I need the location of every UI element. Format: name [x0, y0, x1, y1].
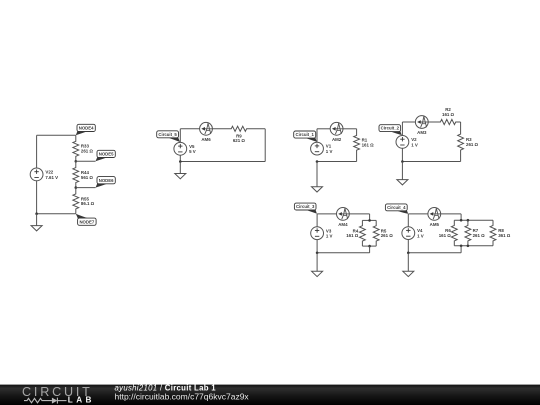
node Circuit_5 flag [157, 131, 180, 142]
ground circuit C [312, 162, 323, 193]
wire circuit D bottom rail [402, 161, 460, 163]
wire circuit B bottom rail [180, 161, 265, 163]
wire circuit F bottom rail [408, 252, 461, 254]
voltage source V22 7.61 V [30, 168, 58, 181]
node Circuit_4 flag [385, 204, 408, 214]
wire circuit C bottom rail [317, 161, 357, 163]
ammeter AM2 [330, 122, 343, 141]
wire circuit C top-right segment [343, 128, 357, 130]
node Circuit_2 flag [379, 125, 402, 135]
svg-text:V22: V22 [45, 170, 53, 175]
voltage source V2 1 V [396, 136, 418, 149]
wire circuit D V2 bottom lead [401, 148, 403, 161]
node NODE7 flag [76, 214, 96, 226]
svg-text:161 Ω: 161 Ω [442, 112, 455, 117]
wire circuit F top-left segment [408, 213, 428, 215]
node junction top bus R7 circuit F [467, 219, 470, 222]
wire left rail lower circuit A [36, 181, 38, 214]
resistor R55 86.1 Ohm [73, 188, 95, 214]
wire circuit E top-left segment [317, 213, 336, 215]
resistor R8 361 Ohm [490, 220, 511, 246]
node Circuit_3 flag [294, 203, 317, 214]
svg-text:561 Ω: 561 Ω [81, 175, 94, 180]
svg-text:NODE7: NODE7 [79, 219, 94, 224]
svg-text:1 V: 1 V [326, 234, 333, 239]
node junction top bus stem circuit F [460, 219, 463, 222]
wire circuit E stem down to bus [369, 214, 371, 221]
resistor R4 161 Ohm [346, 220, 365, 246]
svg-text:NODE5: NODE5 [99, 151, 114, 156]
voltage source V5 5 V [174, 142, 196, 155]
svg-text:261 Ω: 261 Ω [381, 233, 394, 238]
wire left rail upper circuit A [36, 135, 38, 168]
resistor R6 161 Ohm [439, 220, 457, 246]
svg-text:7.61 V: 7.61 V [45, 175, 58, 180]
wire circuit D V2 top lead [401, 122, 403, 136]
node junction NODE5 [75, 160, 78, 163]
wire circuit E bottom bus [362, 245, 376, 247]
svg-text:1 V: 1 V [411, 142, 418, 147]
svg-text:261 Ω: 261 Ω [466, 142, 479, 147]
node junction ground circuit C [316, 160, 319, 163]
svg-text:Circuit_1: Circuit_1 [296, 132, 315, 137]
ammeter AM5 [428, 208, 441, 228]
node NODE4 flag [76, 124, 96, 135]
svg-text:AM3: AM3 [417, 130, 427, 135]
svg-text:NODE6: NODE6 [99, 178, 114, 183]
node junction NODE6 [75, 186, 78, 189]
wire top rail circuit A [37, 134, 76, 136]
svg-text:161 Ω: 161 Ω [362, 143, 375, 148]
resistor R2 161 Ohm [428, 107, 460, 124]
ground circuit E [312, 253, 323, 277]
svg-text:1 V: 1 V [326, 149, 333, 154]
ground circuit B [175, 162, 186, 179]
node Circuit_1 flag [294, 131, 317, 142]
resistor R3 261 Ohm [458, 122, 479, 162]
node junction ground circuit A [35, 212, 38, 215]
ammeter AM6 [200, 122, 213, 141]
wire circuit E bottom rail [317, 252, 370, 254]
svg-text:261 Ω: 261 Ω [473, 233, 486, 238]
logo text LAB [68, 396, 95, 405]
wire circuit E top bus [362, 219, 376, 221]
svg-text:161 Ω: 161 Ω [439, 233, 452, 238]
wire stub to NODE6 flag [76, 187, 96, 189]
resistor R44 561 Ohm [73, 161, 94, 187]
wire circuit F stem down to bus [460, 214, 462, 220]
svg-text:Circuit_2: Circuit_2 [381, 126, 400, 131]
resistor R7 261 Ohm [465, 220, 485, 246]
wire bottom rail circuit A [37, 213, 76, 215]
wire circuit F top-right segment [441, 213, 461, 215]
wire circuit E V3 top lead [316, 214, 318, 227]
ground circuit D [397, 162, 408, 185]
svg-text:Circuit_3: Circuit_3 [296, 204, 315, 209]
node junction top bus circuit E [368, 219, 371, 222]
svg-text:161 Ω: 161 Ω [346, 233, 359, 238]
resistor R9 621 Ohm [212, 126, 265, 143]
ground circuit F [403, 253, 414, 277]
footer bar [0, 385, 540, 405]
footer title line [115, 383, 217, 392]
wire circuit B right rail [264, 129, 266, 162]
node NODE6 flag [96, 177, 116, 188]
wire circuit F V4 bottom lead [407, 240, 409, 253]
svg-text:AM6: AM6 [201, 137, 211, 142]
wire circuit E stem to bottom rail [369, 246, 371, 253]
wire stub to NODE5 flag [76, 160, 96, 162]
resistor R1 161 Ohm [354, 129, 374, 162]
svg-text:http://circuitlab.com/c77q6kvc: http://circuitlab.com/c77q6kvc7az9x [115, 391, 250, 401]
voltage source V1 1 V [311, 142, 333, 155]
node NODE5 flag [96, 150, 116, 161]
node junction bottom bus stem circuit F [460, 245, 463, 248]
wire circuit D top-left segment [402, 121, 415, 123]
node junction bottom bus R7 circuit F [467, 245, 470, 248]
svg-text:621 Ω: 621 Ω [233, 138, 246, 143]
ground circuit A [31, 214, 42, 231]
wire circuit F top bus [454, 219, 493, 221]
resistor R5 261 Ohm [373, 220, 393, 246]
svg-text:Circuit_4: Circuit_4 [387, 205, 406, 210]
voltage source V4 1 V [402, 227, 424, 240]
wire circuit E V3 bottom lead [316, 240, 318, 253]
svg-text:V3: V3 [326, 228, 332, 233]
logo resistor-diode glyph [24, 398, 67, 404]
svg-text:AM5: AM5 [430, 222, 440, 227]
svg-text:AM4: AM4 [338, 222, 348, 227]
svg-text:261 Ω: 261 Ω [81, 149, 94, 154]
ammeter AM3 [415, 116, 428, 136]
resistor R33 261 Ohm [73, 135, 94, 161]
svg-text:Circuit_5: Circuit_5 [158, 132, 177, 137]
wire circuit B V5 bottom lead [179, 155, 181, 161]
wire circuit C top-left segment [317, 128, 330, 130]
wire circuit B top-left segment [180, 128, 199, 130]
svg-text:NODE4: NODE4 [79, 125, 94, 130]
svg-text:V2: V2 [411, 137, 417, 142]
node junction ground circuit B [179, 160, 182, 163]
node junction bottom bus circuit E [368, 245, 371, 248]
footer url line [115, 391, 250, 401]
wire circuit C V1 top lead [316, 129, 318, 142]
svg-text:86.1 Ω: 86.1 Ω [81, 201, 95, 206]
node junction ground circuit E [316, 252, 319, 255]
wire circuit F stem to bottom rail [460, 246, 462, 253]
svg-text:AM2: AM2 [332, 137, 342, 142]
svg-text:361 Ω: 361 Ω [498, 233, 511, 238]
wire circuit F bottom bus [454, 245, 493, 247]
svg-text:5 V: 5 V [189, 149, 196, 154]
wire circuit F V4 top lead [407, 214, 409, 227]
node junction ground circuit D [401, 160, 404, 163]
logo text CIRCUIT [22, 385, 93, 399]
svg-text:V5: V5 [189, 144, 195, 149]
voltage source V3 1 V [311, 227, 333, 240]
svg-text:1 V: 1 V [417, 234, 424, 239]
svg-text:V1: V1 [326, 144, 332, 149]
svg-text:LAB: LAB [68, 396, 95, 405]
svg-text:V4: V4 [417, 228, 423, 233]
wire circuit E top-right segment [349, 213, 369, 215]
wire circuit B V5 top lead [179, 129, 181, 143]
node junction ground circuit F [407, 252, 410, 255]
ammeter AM4 [337, 208, 350, 228]
